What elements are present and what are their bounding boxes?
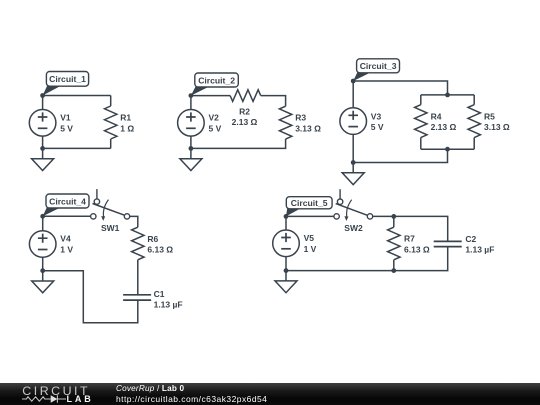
wire: [353, 149, 447, 162]
svg-text:Circuit_2: Circuit_2: [198, 75, 235, 85]
title CoverRup / Lab 0: [116, 385, 184, 393]
svg-text:V3: V3: [371, 111, 382, 121]
wire: [43, 95, 111, 97]
node junction dot: [445, 147, 450, 152]
wire: [137, 260, 139, 295]
svg-text:Circuit_3: Circuit_3: [360, 61, 397, 71]
svg-text:R3: R3: [295, 113, 306, 123]
node junction dot: [189, 93, 194, 98]
wire: [43, 147, 111, 149]
switch SW2: [334, 189, 373, 221]
resistor R5: [468, 95, 480, 149]
node junction dot: [351, 160, 356, 165]
wire: [43, 271, 138, 323]
voltage source V5: [273, 216, 300, 270]
resistor R3: [279, 106, 291, 139]
logo resistor and diode wire: [21, 393, 69, 405]
svg-text:SW1: SW1: [101, 223, 120, 233]
node label balloon Circuit_4: [43, 194, 89, 216]
wire: [353, 81, 447, 95]
node junction dot: [40, 93, 45, 98]
svg-text:1 V: 1 V: [304, 244, 317, 254]
wire: [191, 95, 230, 97]
wire: [421, 148, 474, 150]
logo LAB text: [67, 395, 94, 404]
svg-text:6.13 Ω: 6.13 Ω: [147, 245, 173, 255]
node junction dot: [351, 79, 356, 84]
node label balloon Circuit_1: [43, 72, 89, 96]
resistor R2: [230, 90, 261, 102]
node label balloon Circuit_5: [286, 197, 332, 217]
svg-text:V5: V5: [304, 233, 315, 243]
wire: [191, 139, 286, 148]
svg-text:2.13 Ω: 2.13 Ω: [431, 122, 457, 132]
node junction dot: [189, 146, 194, 151]
svg-text:1.13 µF: 1.13 µF: [465, 245, 494, 255]
svg-text:V4: V4: [60, 234, 71, 244]
wire: [286, 215, 334, 217]
svg-text:1.13 µF: 1.13 µF: [154, 299, 183, 309]
svg-text:R1: R1: [120, 113, 131, 123]
footer bar: [0, 383, 540, 405]
node junction dot: [284, 268, 289, 273]
node junction dot: [40, 268, 45, 273]
svg-text:5 V: 5 V: [209, 123, 222, 133]
svg-text:R6: R6: [147, 234, 158, 244]
node junction dot: [40, 214, 45, 219]
node label balloon Circuit_3: [353, 59, 399, 81]
svg-text:5 V: 5 V: [60, 123, 73, 133]
wire: [421, 94, 474, 96]
svg-text:V2: V2: [209, 113, 220, 123]
url http://circuitlab.com/c63ak32px6d54: [116, 395, 267, 404]
svg-text:R2: R2: [239, 106, 250, 116]
svg-text:Circuit_1: Circuit_1: [49, 74, 86, 84]
svg-text:V1: V1: [60, 113, 71, 123]
svg-text:3.13 Ω: 3.13 Ω: [295, 123, 321, 133]
node junction dot: [40, 146, 45, 151]
svg-text:1 Ω: 1 Ω: [120, 123, 134, 133]
voltage source V3: [340, 81, 367, 163]
ground: [275, 271, 297, 293]
svg-text:2.13 Ω: 2.13 Ω: [232, 117, 258, 127]
node junction dot: [391, 268, 396, 273]
svg-text:SW2: SW2: [344, 223, 363, 233]
node junction dot: [284, 214, 289, 219]
node junction dot: [391, 214, 396, 219]
svg-text:C1: C1: [154, 289, 165, 299]
voltage source V2: [178, 96, 205, 149]
svg-text:R4: R4: [431, 111, 442, 121]
capacitor C1: [123, 295, 151, 300]
resistor R7: [388, 216, 400, 270]
CircuitLab logo CIRCUIT text: [22, 385, 112, 397]
resistor R1: [105, 96, 117, 149]
node label balloon Circuit_2: [191, 73, 238, 96]
wire: [43, 215, 91, 217]
voltage source V4: [29, 216, 56, 270]
voltage source V1: [29, 96, 56, 149]
ground: [342, 163, 364, 185]
wire: [261, 96, 286, 107]
wire: [286, 247, 448, 271]
resistor R6: [132, 227, 144, 260]
wire: [130, 216, 138, 227]
capacitor C2: [434, 241, 462, 246]
svg-text:R7: R7: [404, 234, 415, 244]
ground: [180, 148, 202, 170]
svg-text:6.13 Ω: 6.13 Ω: [404, 244, 430, 254]
node junction dot: [445, 93, 450, 98]
ground: [32, 271, 54, 293]
wire: [373, 216, 448, 241]
ground: [32, 148, 54, 170]
svg-text:Circuit_5: Circuit_5: [291, 198, 328, 208]
svg-text:Circuit_4: Circuit_4: [49, 196, 86, 206]
svg-text:R5: R5: [484, 111, 495, 121]
svg-text:1 V: 1 V: [60, 245, 73, 255]
resistor R4: [415, 95, 427, 149]
switch SW1: [91, 189, 130, 221]
svg-text:3.13 Ω: 3.13 Ω: [484, 122, 510, 132]
svg-text:5 V: 5 V: [371, 122, 384, 132]
svg-text:C2: C2: [465, 234, 476, 244]
